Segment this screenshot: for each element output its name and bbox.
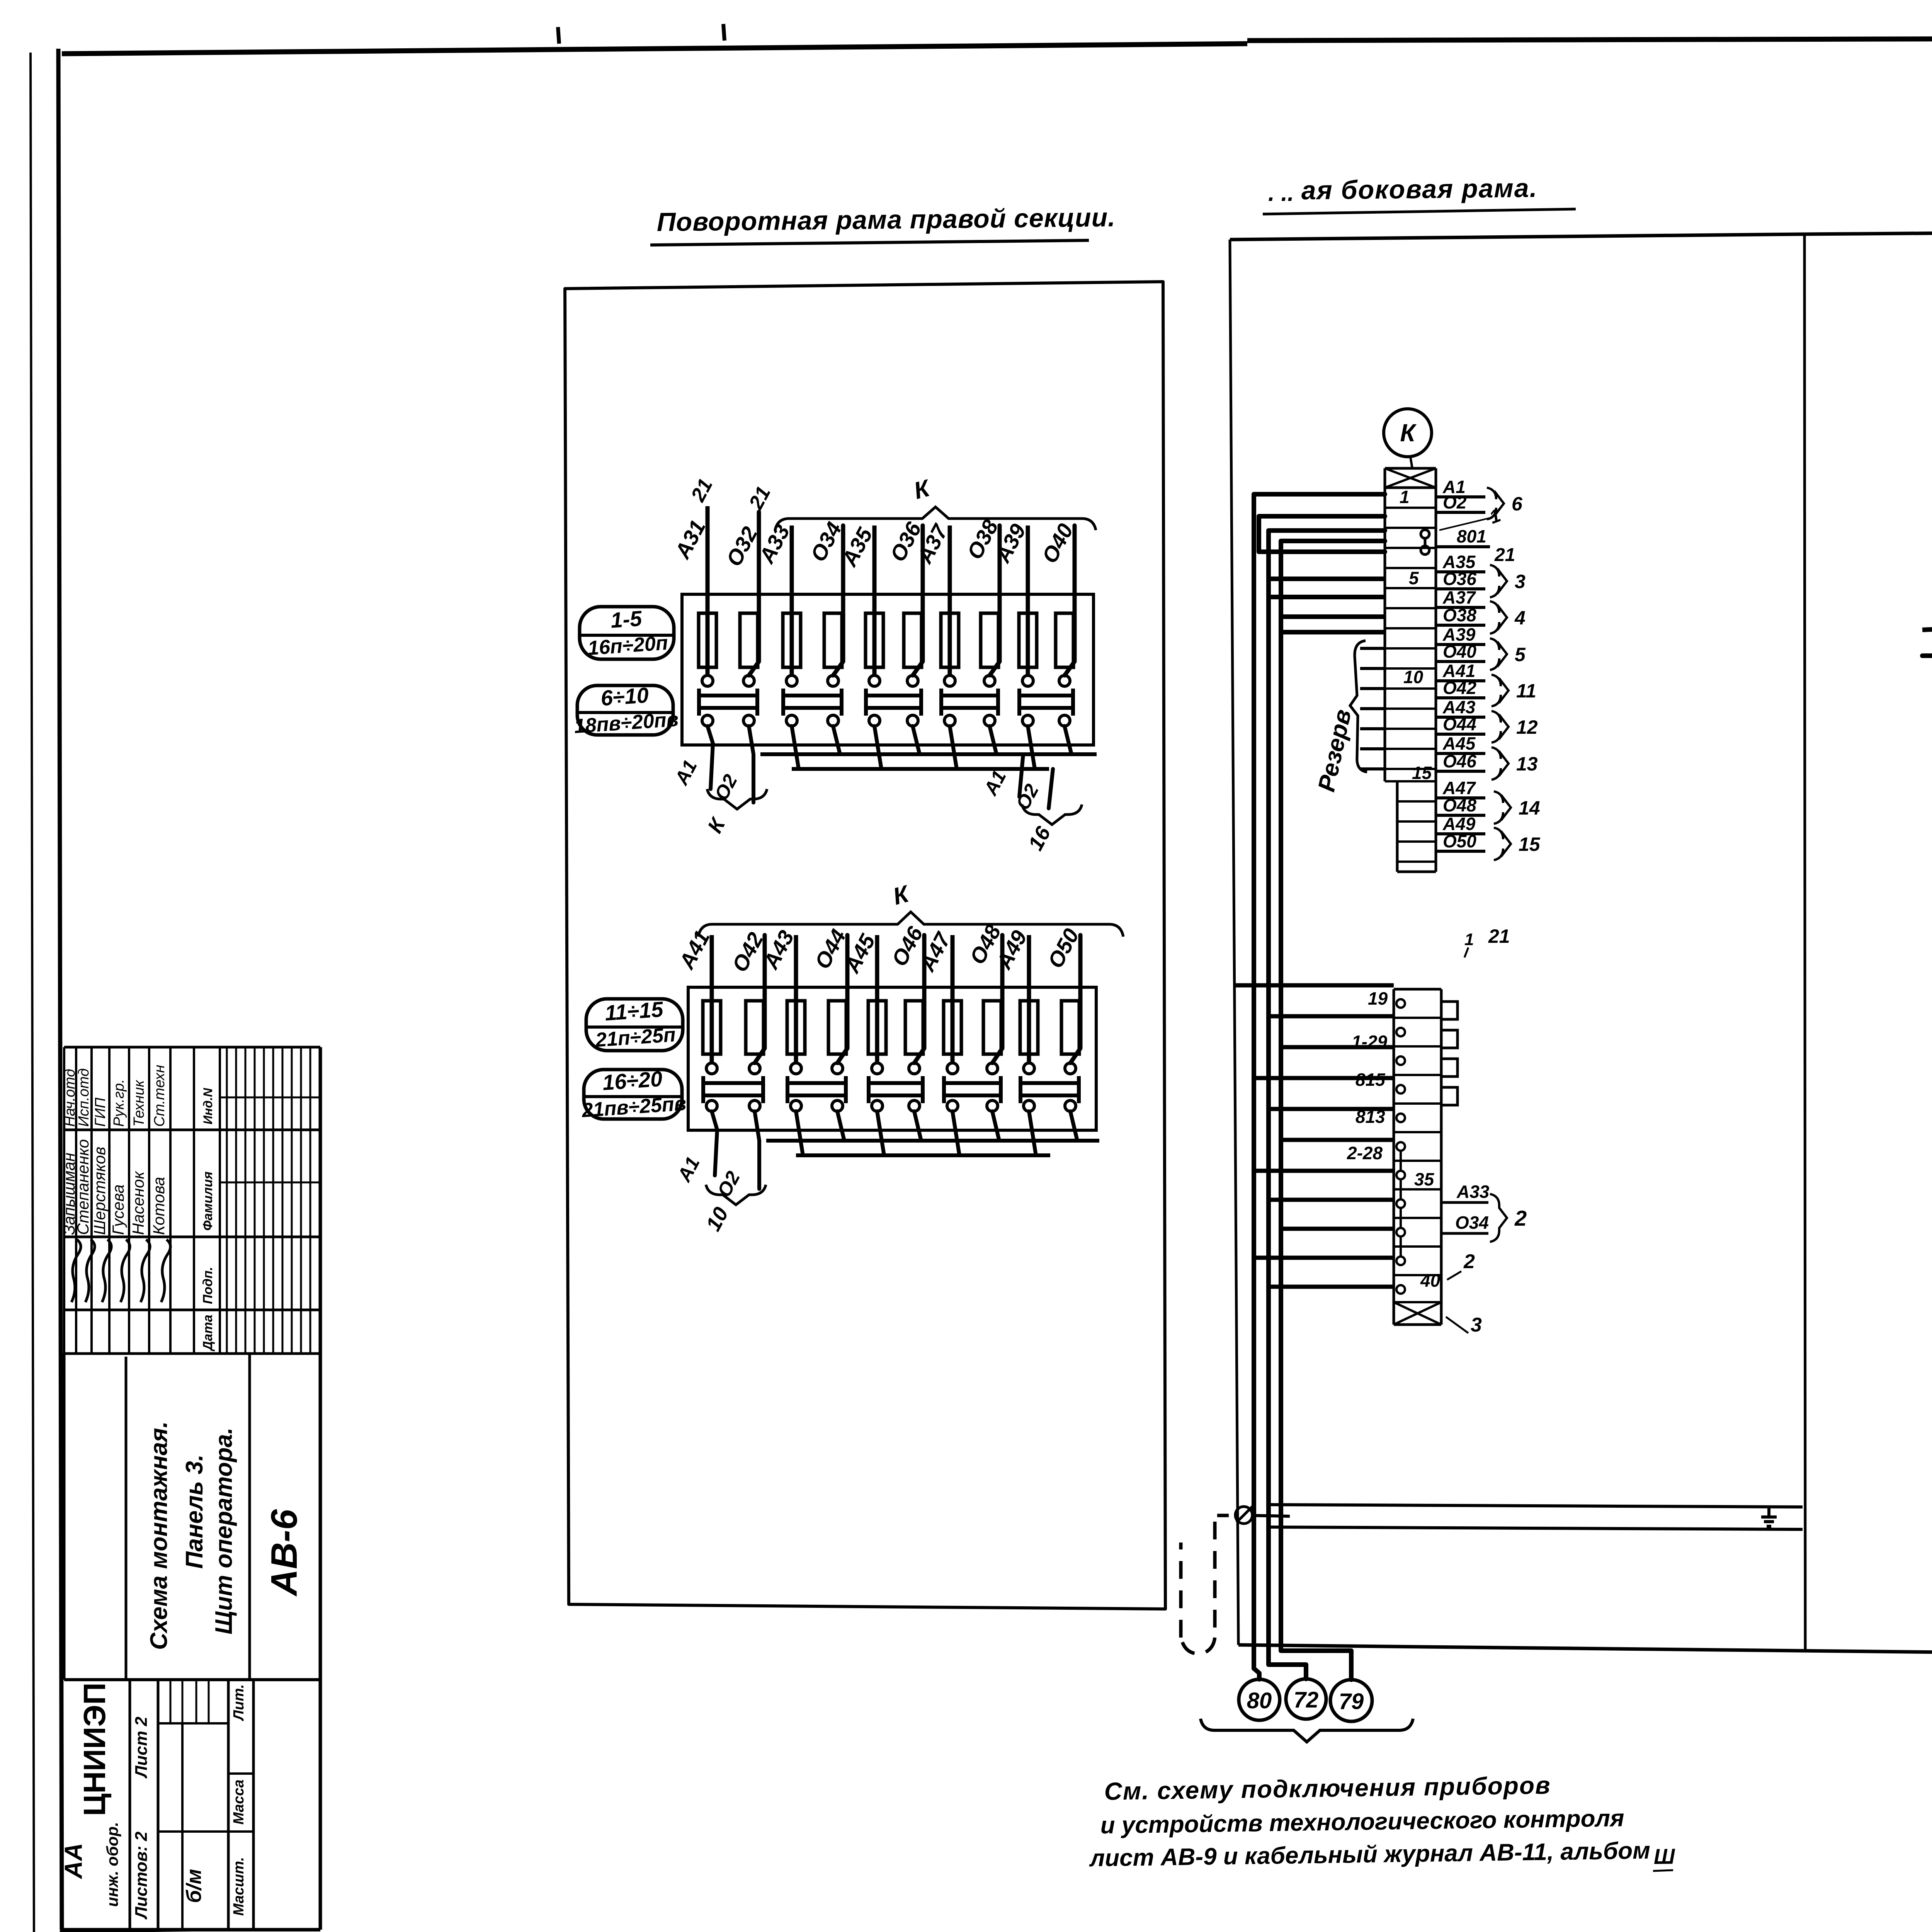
brace A33/O34 — [1490, 1194, 1507, 1242]
svg-text:б/м: б/м — [182, 1869, 206, 1903]
fuse А31 — [699, 613, 716, 667]
bank1 right stub wire A1 — [1019, 754, 1023, 797]
reserve stub — [1360, 687, 1385, 690]
signature squiggle — [161, 1240, 170, 1302]
brace pair 12 — [1492, 711, 1509, 743]
signature squiggle — [141, 1240, 150, 1302]
svg-text:801: 801 — [1457, 526, 1486, 546]
stub wire О2 — [1436, 511, 1485, 514]
wire collector bus upper — [760, 752, 1097, 756]
svg-text:1: 1 — [1464, 930, 1474, 949]
frame top thick right part — [1247, 37, 1932, 41]
stub wire О48 — [1436, 814, 1485, 817]
lower strip left edge — [1393, 989, 1395, 1325]
svg-text:10: 10 — [1403, 667, 1423, 687]
strip row line — [1385, 547, 1436, 549]
svg-text:А37: А37 — [1442, 587, 1476, 607]
svg-text:35: 35 — [1414, 1169, 1435, 1189]
stamp right edge — [319, 1047, 322, 1930]
svg-text:О46: О46 — [1443, 751, 1476, 771]
fuse О34 — [824, 613, 842, 667]
jumper 801 on strip — [1421, 530, 1429, 538]
wire collector bus upper — [766, 1139, 1099, 1143]
stamp row line — [108, 1047, 111, 1354]
stub wire О36 — [1436, 587, 1485, 590]
fuse О50 — [1061, 1001, 1079, 1054]
brace pair 6 — [1487, 488, 1504, 519]
feeder wire lower strip — [1254, 1256, 1394, 1260]
wire drop — [913, 726, 920, 754]
lower strip row line — [1394, 1188, 1441, 1190]
strip row line — [1385, 627, 1436, 629]
strip row line — [1385, 647, 1436, 650]
stub wire О44 — [1436, 733, 1485, 736]
bank1 right brace 16 — [1022, 804, 1082, 825]
wire to left stub A1 — [712, 1111, 717, 1175]
jumper link between А37 and О38 — [939, 689, 943, 716]
svg-text:О50: О50 — [1443, 831, 1476, 851]
stamp fine column — [272, 1047, 274, 1354]
stamp fine column — [310, 1047, 311, 1354]
lower strip row line — [1394, 1074, 1441, 1076]
stamp row line — [63, 1047, 65, 1354]
strip row line — [1385, 587, 1436, 589]
terminal pin — [1396, 1228, 1405, 1236]
svg-text:Щит оператора.: Щит оператора. — [211, 1427, 237, 1634]
pointer line for 1 — [1439, 518, 1491, 530]
signature squiggle — [71, 1240, 81, 1302]
brace pair 11 — [1492, 675, 1509, 706]
terminal pin — [1396, 1285, 1405, 1294]
brace under cable circles — [1201, 1719, 1413, 1742]
bank1 right stub wire O2 — [1049, 769, 1053, 808]
wire collector bus lower — [796, 1153, 1050, 1157]
fuse А49 — [1020, 1001, 1038, 1054]
svg-text:Листов: 2: Листов: 2 — [132, 1832, 151, 1920]
svg-text:О2: О2 — [1443, 492, 1467, 512]
stub wire О42 — [1436, 696, 1485, 699]
stamp row line — [128, 1047, 130, 1354]
signature squiggle — [121, 1240, 130, 1302]
jumper link between А39 and О40 — [1017, 689, 1021, 716]
svg-text:Дата: Дата — [201, 1315, 215, 1352]
fuse А33 — [783, 613, 801, 667]
lower strip row line — [1394, 1301, 1441, 1303]
wire drop — [950, 726, 957, 769]
strip row line (shifted part) — [1397, 800, 1436, 803]
leader for label 2 — [1447, 1271, 1461, 1280]
fuse О38 — [981, 613, 998, 667]
panels bottom border — [1238, 1645, 1932, 1658]
signature squiggle — [102, 1240, 111, 1302]
terminal pin — [1396, 1114, 1405, 1122]
jumper link between А41 and О42 — [701, 1076, 705, 1103]
small arrow below strip — [1464, 947, 1468, 957]
stub wire А43 — [1436, 716, 1485, 719]
wire to left stub A1 — [707, 726, 713, 789]
fuse А39 — [1019, 613, 1037, 667]
brace pair 4 — [1490, 601, 1507, 634]
svg-text:80: 80 — [1247, 1688, 1272, 1713]
feeder wire upper strip — [1269, 577, 1385, 581]
connector tabs right side — [1441, 1002, 1458, 1019]
svg-text:Лист 2: Лист 2 — [132, 1716, 151, 1779]
wire drop — [877, 1111, 884, 1155]
strip row line — [1385, 728, 1436, 730]
fuse bank 1 (circuits 1-5 / 16P-20P) body outline — [682, 594, 1094, 745]
wire drop — [833, 726, 840, 754]
svg-text:Котова: Котова — [150, 1177, 168, 1235]
fuse А41 — [703, 1001, 721, 1054]
stamp row line — [90, 1047, 93, 1354]
svg-text:Техник: Техник — [131, 1080, 147, 1127]
stub wire О38 — [1436, 624, 1485, 627]
jumper link between А31 and О32 — [697, 689, 701, 716]
earth bus upper line — [1269, 1505, 1803, 1507]
svg-text:2-28: 2-28 — [1347, 1143, 1383, 1163]
svg-text:Ш: Ш — [1653, 1844, 1675, 1869]
feeder wire upper strip — [1281, 614, 1385, 619]
stamp row line — [193, 1047, 195, 1354]
jumper link between А35 and О36 — [864, 689, 868, 716]
svg-text:3: 3 — [1471, 1314, 1482, 1336]
terminal pin — [1396, 1142, 1405, 1151]
stamp line — [248, 1354, 251, 1680]
svg-text:2: 2 — [1514, 1206, 1527, 1230]
top frame tick mark 2 — [723, 24, 724, 41]
svg-text:К: К — [1400, 419, 1417, 447]
strip row line — [1385, 607, 1436, 609]
wire 801 to connector — [1922, 623, 1932, 630]
pin chain link — [1400, 1208, 1402, 1228]
stamp column line — [64, 1236, 320, 1238]
brace pair 3 — [1490, 565, 1507, 597]
mini cell line — [196, 1680, 197, 1723]
fuse А45 — [868, 1001, 886, 1054]
svg-text:5: 5 — [1409, 568, 1419, 588]
underline roman III — [1653, 1870, 1673, 1871]
jumper link between А47 and О48 — [942, 1076, 946, 1103]
svg-text:ГИП: ГИП — [92, 1097, 109, 1127]
svg-text:16÷20: 16÷20 — [602, 1066, 663, 1095]
ground symbol on earth bus — [1761, 1507, 1777, 1526]
svg-text:1-5: 1-5 — [610, 606, 643, 633]
svg-text:11: 11 — [1516, 680, 1536, 702]
svg-text:15: 15 — [1519, 833, 1541, 855]
svg-text:Степаненко: Степаненко — [74, 1139, 92, 1235]
svg-text:О38: О38 — [1443, 605, 1476, 625]
feeder wire lower strip — [1269, 1107, 1394, 1111]
fuse О48 — [983, 1001, 1001, 1054]
terminal strip designation circle K — [1384, 409, 1432, 457]
cable circle 79 — [1330, 1680, 1372, 1721]
lower strip row line — [1394, 1217, 1441, 1219]
svg-text:О34: О34 — [1455, 1213, 1489, 1233]
fuse А37 — [941, 613, 959, 667]
stamp fine column — [300, 1047, 302, 1354]
fuse О36 — [904, 613, 922, 667]
frame top thick left part — [62, 44, 1247, 54]
svg-text:О36: О36 — [1443, 569, 1476, 589]
svg-text:19: 19 — [1368, 988, 1388, 1009]
stamp fine column — [226, 1047, 228, 1354]
terminal pin — [1396, 1199, 1405, 1208]
feeder wire lower strip — [1269, 1014, 1394, 1019]
brace pair 5 — [1490, 638, 1507, 670]
feeder wire lower strip — [1281, 1227, 1394, 1231]
svg-text:11÷15: 11÷15 — [604, 997, 664, 1025]
stub wire 801 — [1436, 545, 1490, 548]
earth terminal circle with slash — [1235, 1504, 1255, 1524]
feeder wire upper strip — [1269, 595, 1385, 599]
stamp fine column — [254, 1047, 256, 1354]
stub wire О46 — [1436, 770, 1485, 773]
strip row line (shifted part) — [1397, 840, 1436, 843]
brace K over bank2 wires — [698, 912, 1123, 937]
wire drop — [874, 726, 881, 769]
feeder wire lower strip — [1281, 1045, 1394, 1049]
svg-text:79: 79 — [1339, 1689, 1364, 1714]
reserve stub — [1360, 707, 1385, 710]
bank1 left brace K — [707, 789, 767, 809]
feeder wire lower strip — [1269, 1198, 1394, 1202]
strip row line — [1385, 527, 1436, 529]
lower strip right edge — [1440, 989, 1443, 1325]
mini cell line — [208, 1680, 210, 1723]
reserve stub — [1360, 727, 1385, 730]
strip left edge — [1384, 468, 1386, 781]
stub wire А47 — [1436, 796, 1485, 799]
svg-text:1-29: 1-29 — [1352, 1032, 1387, 1052]
brace for reserve group — [1350, 641, 1367, 772]
feeder wire lower strip — [1254, 1169, 1394, 1173]
svg-text:15: 15 — [1412, 763, 1432, 783]
mini cell line — [182, 1680, 184, 1723]
wire drop — [792, 726, 799, 769]
stub wire А1 — [1436, 495, 1485, 498]
svg-text:72: 72 — [1294, 1687, 1319, 1713]
strip top edge — [1385, 467, 1436, 470]
leader for label 3 — [1446, 1317, 1468, 1333]
frame left thick — [58, 49, 62, 1930]
svg-text:Подп.: Подп. — [201, 1267, 215, 1304]
svg-text:О48: О48 — [1443, 795, 1476, 815]
svg-text:Масшт.: Масшт. — [231, 1857, 247, 1916]
wire drop — [1070, 1111, 1077, 1141]
feeder wire lower strip — [1269, 1285, 1394, 1289]
pin chain link — [1400, 1151, 1402, 1171]
svg-text:О42: О42 — [1443, 678, 1476, 698]
pin chain link — [1400, 1179, 1402, 1199]
fuse А47 — [944, 1001, 961, 1054]
wire drop — [1028, 726, 1035, 769]
stamp column line — [64, 1046, 320, 1049]
title underline — [650, 240, 1089, 245]
lower strip row line — [1394, 1131, 1441, 1133]
middle panel left border — [1230, 240, 1238, 1645]
stamp column line — [64, 1309, 320, 1311]
earth terminal link wire — [1252, 1515, 1290, 1516]
svg-text:. ..: . .. — [1268, 180, 1294, 206]
stamp column line — [64, 1352, 320, 1355]
svg-text:21: 21 — [1488, 925, 1510, 947]
svg-text:ЦНИИЭП: ЦНИИЭП — [77, 1682, 112, 1816]
svg-text:АВ-6: АВ-6 — [264, 1509, 305, 1597]
svg-text:Лит.: Лит. — [231, 1684, 247, 1721]
stamp line — [125, 1357, 128, 1680]
wire drop — [1065, 726, 1071, 754]
cable circle 72 — [1286, 1679, 1326, 1719]
middle title underline — [1263, 209, 1576, 214]
brace pair 13 — [1492, 747, 1509, 780]
middle panel top border — [1230, 234, 1804, 240]
lower strip row line — [1394, 1160, 1441, 1162]
lower strip row line — [1394, 1274, 1441, 1276]
terminal pin — [1396, 1171, 1405, 1179]
wire drop — [914, 1111, 921, 1141]
reserve stub — [1360, 747, 1385, 750]
wire to left stub O2 — [749, 726, 753, 803]
signature squiggle — [85, 1240, 95, 1302]
stamp column line — [64, 1129, 320, 1131]
reserve stub — [1360, 667, 1385, 670]
svg-text:12: 12 — [1516, 716, 1538, 738]
strip right edge — [1435, 468, 1437, 872]
svg-text:2: 2 — [1463, 1250, 1475, 1273]
svg-text:А33: А33 — [1456, 1182, 1490, 1202]
lower strip row line — [1394, 1245, 1441, 1248]
oval label circuits 6-10 — [577, 685, 673, 735]
wire collector bus lower — [792, 767, 1049, 771]
brace K over bank1 wires 3-10 — [775, 507, 1096, 530]
feeder wire lower strip — [1235, 983, 1394, 988]
stub wire А35 — [1436, 570, 1485, 573]
svg-text:А45: А45 — [1442, 733, 1476, 753]
svg-text:Гусева: Гусева — [109, 1184, 127, 1235]
terminal pin — [1396, 1028, 1405, 1036]
terminal strip K lower shifted part — [1396, 781, 1399, 872]
lower strip end cross box — [1394, 1323, 1441, 1326]
stub wire А37 — [1436, 606, 1485, 609]
stamp fine column — [319, 1047, 321, 1354]
svg-text:Фамилия: Фамилия — [201, 1172, 215, 1231]
svg-text:1: 1 — [1400, 487, 1410, 507]
svg-text:40: 40 — [1420, 1270, 1440, 1291]
fuse bank 2 (circuits 11-15 / 21P-25P) body outline — [688, 987, 1096, 1130]
svg-text:3: 3 — [1515, 571, 1526, 592]
stub wire А41 — [1436, 679, 1485, 682]
strip row line — [1385, 768, 1436, 770]
fuse А35 — [866, 613, 883, 667]
svg-text:инж. обор.: инж. обор. — [103, 1822, 121, 1907]
strip row line (shifted part) — [1397, 820, 1436, 823]
jumper link between А49 and О50 — [1019, 1076, 1022, 1103]
wire drop — [952, 1111, 959, 1155]
svg-text:Схема монтажная.: Схема монтажная. — [146, 1421, 172, 1650]
svg-text:О40: О40 — [1443, 641, 1476, 662]
short bus corner wire — [1259, 516, 1385, 552]
stub wire О50 — [1436, 850, 1485, 853]
svg-text:13: 13 — [1516, 753, 1538, 775]
oval label circuits 16-20 — [584, 1070, 682, 1119]
svg-text:Инд.N: Инд.N — [201, 1088, 215, 1124]
fuse О46 — [905, 1001, 923, 1054]
fuse А43 — [787, 1001, 805, 1054]
strip row line — [1385, 507, 1436, 509]
dashed earthing conductor — [1181, 1515, 1229, 1654]
svg-text:14: 14 — [1519, 797, 1540, 819]
fuse О32 — [740, 613, 758, 667]
jumper link between А45 and О46 — [867, 1076, 871, 1103]
wire bus A (cable 80) — [1254, 494, 1385, 1679]
wire drop — [990, 726, 997, 754]
strip row line — [1385, 567, 1436, 569]
lower strip row line — [1394, 1045, 1441, 1048]
stamp row line — [75, 1047, 77, 1354]
wire drop — [796, 1111, 803, 1155]
divider middle/right panel — [1804, 234, 1805, 1649]
leader from K circle to strip — [1410, 457, 1412, 468]
brace pair 15 — [1494, 828, 1511, 860]
jumper link between А43 and О44 — [786, 1076, 789, 1103]
svg-text:АА: АА — [60, 1843, 87, 1879]
svg-text:813: 813 — [1355, 1107, 1385, 1127]
wire drop — [1029, 1111, 1036, 1155]
stamp fine column — [282, 1047, 284, 1354]
terminal pin — [1396, 1257, 1405, 1265]
pin chain link — [1400, 1236, 1402, 1257]
wire to left stub O2 — [755, 1111, 759, 1189]
stamp row line — [169, 1047, 172, 1354]
wire bus C (cable 79) — [1281, 541, 1385, 1680]
svg-text:ая боковая рама.: ая боковая рама. — [1301, 173, 1537, 205]
terminal pin — [1396, 999, 1405, 1008]
stamp line — [64, 1678, 320, 1681]
lower strip row line — [1394, 1102, 1441, 1105]
fuse О44 — [828, 1001, 846, 1054]
strip row line — [1385, 748, 1436, 750]
stub wires A33 / O34 — [1441, 1201, 1488, 1204]
brace pair 14 — [1494, 791, 1511, 824]
oval label circuits 11-15 — [586, 999, 683, 1051]
svg-text:21: 21 — [1494, 545, 1515, 565]
feeder wire lower strip — [1281, 1138, 1394, 1142]
svg-text:Ст.техн: Ст.техн — [151, 1065, 168, 1127]
stamp fine column — [235, 1047, 237, 1354]
strip row line (shifted part) — [1397, 861, 1436, 863]
svg-text:Панель 3.: Панель 3. — [181, 1454, 208, 1569]
svg-text:4: 4 — [1514, 607, 1526, 629]
stub wire А39 — [1436, 643, 1485, 646]
reserve stub — [1360, 647, 1385, 650]
svg-text:815: 815 — [1355, 1070, 1386, 1090]
earth bus lower line — [1269, 1527, 1803, 1529]
stamp row line — [219, 1047, 221, 1354]
svg-text:Поворотная рама правой секции.: Поворотная рама правой секции. — [656, 203, 1116, 237]
strip row line — [1385, 687, 1436, 690]
svg-text:Насенок: Насенок — [129, 1170, 147, 1235]
stamp fine column — [291, 1047, 293, 1354]
left panel outline — [565, 282, 1165, 1609]
svg-text:Рук.гр.: Рук.гр. — [111, 1079, 127, 1127]
outer border left thin — [31, 53, 34, 1932]
strip row line — [1385, 667, 1436, 670]
terminal pin — [1396, 1085, 1405, 1094]
stamp bottom edge — [62, 1928, 320, 1932]
jumper link between А33 and О34 — [781, 689, 785, 716]
svg-text:5: 5 — [1515, 644, 1526, 665]
feeder wire lower strip — [1254, 1076, 1394, 1080]
